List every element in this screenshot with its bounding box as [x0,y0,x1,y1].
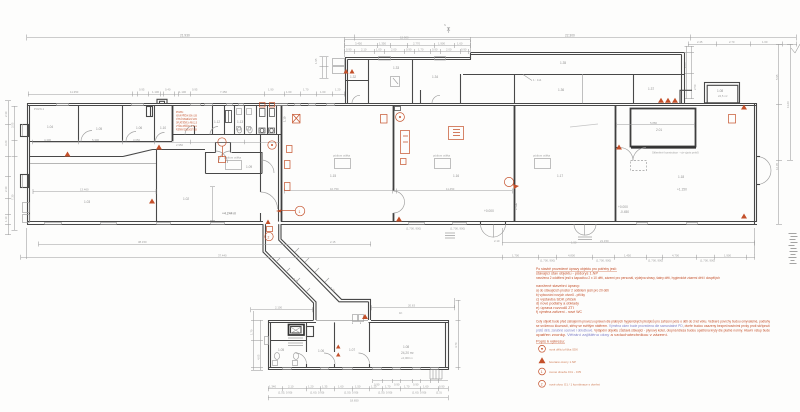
hall1 diagonal wall [123,150,153,157]
svg-text:1.70: 1.70 [385,385,391,389]
lower right vertical dim [458,300,460,370]
svg-text:1.60: 1.60 [762,40,768,44]
svg-text:38.150: 38.150 [138,240,147,244]
svg-text:2.45: 2.45 [697,40,703,44]
annex overall dim [345,39,470,41]
svg-text:+0.000: +0.000 [484,209,494,213]
partition WC right [276,106,278,135]
room 1.09 outline [206,153,263,174]
svg-text:(1.5): (1.5) [436,391,442,395]
door arcs lower building [296,353,370,364]
main building right wall [754,103,756,224]
svg-text:1.60: 1.60 [423,385,429,389]
svg-text:1.37: 1.37 [648,87,654,91]
wc fixtures [273,353,299,366]
entrance steps [445,233,455,238]
ANNEX [333,52,740,103]
hall2 left wall [281,106,283,222]
MARKERS [34,69,747,357]
annex top windows [379,57,391,61]
vestibule inner door [261,160,274,173]
orange triangle top right [741,105,747,110]
svg-text:1.06: 1.06 [318,349,324,353]
svg-text:2.70: 2.70 [729,40,735,44]
svg-text:5.300: 5.300 [92,138,99,142]
corridor right wall [279,224,369,302]
annex partition [368,59,370,103]
hall wall continuation into annex band [514,74,516,103]
bottom dim line L1 right [502,242,755,244]
long band partition [582,74,584,103]
hall1 floor step line [30,163,156,165]
svg-text:2.00: 2.00 [391,48,397,52]
svg-text:pódium výška: pódium výška [433,154,451,158]
annex block A top wall [345,57,471,59]
long band partition dark [633,74,635,103]
svg-text:0.90: 0.90 [461,48,467,52]
annex dim risers [344,40,346,58]
elevator shaft [289,325,305,336]
svg-text:1.70: 1.70 [303,88,309,92]
svg-text:Skleněné konstrukce - viz výpi: Skleněné konstrukce - viz výpis prvků [652,151,699,155]
CORRIDORLOWER [250,116,519,402]
svg-text:1.08: 1.08 [717,89,723,93]
small dark marks in rooms [147,107,153,117]
annex horizontal partition [345,80,368,82]
red circle below exit [265,232,273,240]
svg-text:+0.000: +0.000 [618,205,628,209]
red triangle [156,145,162,150]
corridor right wall vertical to lower building [368,302,370,320]
svg-text:f) výměna zařízení - nové WC: f) výměna zařízení - nové WC [536,310,583,314]
svg-text:2.770: 2.770 [413,42,420,46]
step between annex and long room [470,52,472,59]
long room right end wall [681,55,683,104]
long room top wall [471,52,684,54]
svg-text:POZN.1: POZN.1 [34,107,45,111]
svg-text:(1.700, 900): (1.700, 900) [406,227,421,231]
svg-text:3.55: 3.55 [11,122,15,128]
svg-text:18.650: 18.650 [350,399,359,403]
svg-text:0.90: 0.90 [432,48,438,52]
top right dimension chain [688,44,797,46]
svg-text:1.70: 1.70 [418,48,424,52]
hall1 vertical wall [156,150,158,222]
svg-text:-0.450: -0.450 [620,210,629,214]
svg-text:2.10: 2.10 [361,48,367,52]
svg-text:13.460: 13.460 [80,188,89,192]
annex partition [460,74,462,103]
svg-text:0.90: 0.90 [346,48,352,52]
doors below room 2.01 [620,148,646,161]
second entrance door [574,224,596,235]
svg-text:1.100: 1.100 [179,90,186,94]
main top wall dimension line [28,94,345,96]
svg-text:0.90: 0.90 [413,383,419,387]
svg-text:5.95: 5.95 [775,74,779,80]
svg-text:Celý objekt bude před zahájení: Celý objekt bude před zahájením provozu … [536,320,770,324]
risers to bottom dims [26,228,28,259]
windows in bottom wall [45,223,698,225]
small box left of 1.08 [680,90,692,103]
lower building top wall [268,320,314,322]
svg-text:10.750: 10.750 [330,187,339,191]
main building left wall [27,103,29,224]
hall2/2b double door arcs [394,191,405,213]
svg-text:1.36: 1.36 [558,88,564,92]
chimney fixture on wall [395,107,401,111]
svg-text:opatřen zvonky. Větrání zajišt: opatřen zvonky. Větrání zajištěno okny a… [536,333,668,337]
svg-text:+4.244 m: +4.244 m [222,212,236,216]
svg-text:se sníženou kluzností, stěny s: se sníženou kluzností, stěny se světlým … [536,324,770,328]
right edge rotated sheet text [789,234,798,264]
svg-text:1.60: 1.60 [320,90,326,94]
svg-text:0.40: 0.40 [165,88,171,92]
SIDEDIMS [4,44,800,264]
right vertical dim inner [790,44,792,160]
svg-text:1: 1 [541,370,543,374]
svg-text:0.90: 0.90 [394,383,400,387]
long room bottom wall [463,74,684,76]
bottom dim line L2 [21,257,755,259]
svg-text:1 : 114: 1 : 114 [533,78,542,82]
MAINWALLS [21,99,772,244]
red marks below exit [266,220,271,225]
svg-text:2: 2 [268,235,270,239]
svg-text:1.02: 1.02 [183,197,189,201]
bottom wall windows [283,368,439,370]
svg-text:1.13: 1.13 [237,120,243,124]
small partition marks [307,327,314,337]
svg-text:0.90: 0.90 [406,48,412,52]
hall wall x=514 [514,106,516,222]
small center box [391,77,400,87]
svg-text:1.90: 1.90 [268,88,274,92]
svg-text:24,20 m²: 24,20 m² [401,351,414,355]
svg-text:1.05: 1.05 [278,348,284,352]
bay door arcs [216,151,231,163]
svg-text:1.100: 1.100 [152,90,159,94]
partition thick [172,106,174,142]
annex left small vertical dims [322,57,324,78]
svg-text:3.050: 3.050 [133,138,140,142]
lower total dim [268,397,448,399]
diagonal slope note [523,75,532,81]
svg-text:(1.700, 900): (1.700, 900) [540,259,555,263]
fixtures small rooms [226,111,232,123]
elevator X [291,327,302,334]
red triangle hall1 right [149,199,155,204]
WC fixtures [259,109,275,134]
svg-text:21.930: 21.930 [180,33,190,37]
svg-text:(1.50, 0.90): (1.50, 0.90) [378,391,392,395]
svg-text:1.50: 1.50 [355,385,361,389]
right vertical dim outer [778,44,780,224]
lower bottom chain dim [268,388,448,390]
svg-text:1.900: 1.900 [438,42,445,46]
red circle marker WC [268,141,276,149]
svg-text:navržené stavební úpravy:: navržené stavební úpravy: [536,284,580,288]
dim line left of junction [251,309,313,311]
svg-text:2.30: 2.30 [4,186,8,192]
annex red triangles [344,69,355,74]
svg-text:4.400: 4.400 [44,138,51,142]
svg-text:1.95: 1.95 [314,58,318,64]
svg-text:1.34: 1.34 [432,75,438,79]
bay doorway [216,143,231,153]
windows in top wall [57,104,335,106]
svg-text:(1.700, 900): (1.700, 900) [648,259,663,263]
svg-text:1.35: 1.35 [560,61,566,65]
lower building red triangle [362,314,368,319]
room 2.01 [631,109,696,147]
overall top dimension line [27,37,796,39]
svg-text:(1.60, 0.90): (1.60, 0.90) [412,391,426,395]
svg-text:1: 1 [299,210,301,214]
svg-text:1.12: 1.12 [214,120,220,124]
svg-text:12.900: 12.900 [400,36,409,40]
svg-text:4.70: 4.70 [454,342,458,348]
svg-text:1.31: 1.31 [329,286,336,293]
red circle marker with stem (top row) [218,138,226,146]
svg-text:11.60: 11.60 [786,101,790,108]
svg-text:(1.55, 0.90): (1.55, 0.90) [278,391,292,395]
svg-text:37.440: 37.440 [218,253,227,257]
annex left attachment windows [333,59,345,66]
lower right small chain [373,380,448,382]
hall1 interior wall [30,156,123,158]
vestibule vertical dim [212,187,214,221]
svg-text:prstů dětí, zárubně ocelové i: prstů dětí, zárubně ocelové i obložkové.… [536,329,770,333]
svg-text:0.90: 0.90 [439,385,445,389]
lower building bottom wall [268,367,448,369]
svg-text:3.20: 3.20 [4,140,8,146]
orange triangle right section [616,145,622,150]
partition room 1.04/1.05 [78,106,80,142]
svg-text:0.95: 0.95 [192,88,198,92]
svg-text:Popis k výkresu:: Popis k výkresu: [536,340,565,344]
svg-text:2.00: 2.00 [446,48,452,52]
svg-text:navržena 2 oddělení jeslí s ka: navržena 2 oddělení jeslí s kapacitou 2 … [536,276,720,280]
svg-text:POŽÁRNÍ ODOLNOST EI30: POŽÁRNÍ ODOLNOST EI30 [176,129,197,132]
red circle marker left hall2 wall [396,113,405,122]
svg-text:Po stavbě provedené úpravy obj: Po stavbě provedené úpravy objektu pro p… [536,267,617,271]
svg-text:2.50: 2.50 [693,84,697,90]
main building outer bottom wall (with corridor opening) [27,221,263,223]
red circle marker at hall wall [504,177,513,186]
svg-text:1.17: 1.17 [557,174,563,178]
svg-text:2.100: 2.100 [275,306,282,310]
ORANGETEXT [536,267,770,387]
annex door arcs [352,95,440,103]
red triangle hall2 [396,217,402,222]
legend item 1 [539,345,546,352]
TOPDIMS [27,23,798,99]
svg-text:a) do stávajících prostor 2 o: a) do stávajících prostor 2 oddělení jes… [536,289,609,293]
partition [234,106,236,135]
svg-text:(1.60, 0.90): (1.60, 0.90) [310,391,324,395]
svg-text:1.04: 1.04 [47,125,53,129]
right wall double doors [757,157,771,185]
svg-text:2.01: 2.01 [656,128,662,132]
svg-text:1.16: 1.16 [453,174,459,178]
partition [154,106,156,142]
svg-text:(1.700, 900): (1.700, 900) [596,259,611,263]
svg-text:7.30: 7.30 [11,194,15,200]
wall segment [153,149,206,151]
svg-text:(1.700, 900): (1.700, 900) [450,227,465,231]
svg-text:1.900: 1.900 [724,253,731,257]
svg-text:1.350: 1.350 [379,42,386,46]
steps right of building [430,370,442,379]
svg-text:S: S [444,23,446,27]
svg-text:1.700: 1.700 [512,253,519,257]
horizontal partition [271,340,307,342]
hall2/hall2b dividing wall with central door [393,106,395,191]
svg-text:2.30: 2.30 [4,111,8,117]
partition [306,322,308,352]
legend item 3 [539,368,546,375]
svg-text:1.09: 1.09 [246,165,252,169]
vestibule door arc [261,192,278,209]
svg-text:pódium výška: pódium výška [333,154,351,158]
svg-text:2.10: 2.10 [494,239,500,243]
svg-text:1.60: 1.60 [338,385,344,389]
partition WC [267,106,269,135]
svg-text:1.10: 1.10 [283,116,287,122]
svg-text:1.05: 1.05 [96,127,102,131]
svg-text:(1.700, 900): (1.700, 900) [700,259,715,263]
svg-text:1.03: 1.03 [84,200,90,204]
detska herna labels + rects [333,154,551,169]
svg-text:20.63: 20.63 [408,304,415,308]
lower building door red marks [336,345,341,357]
left vertical dim line outer [8,101,10,235]
svg-text:nová dělicí příčka SDK: nová dělicí příčka SDK [549,347,578,351]
svg-text:7.450: 7.450 [220,90,227,94]
svg-text:2: 2 [541,382,543,386]
svg-text:4.800: 4.800 [568,253,575,257]
top row rooms bottom wall right part [172,134,281,136]
red circle with leader (vestibule) [295,206,305,216]
svg-text:nové dveře D1 - D5: nové dveře D1 - D5 [549,370,581,374]
svg-text:(1.50, 0.90): (1.50, 0.90) [344,391,358,395]
svg-text:1.20: 1.20 [335,88,341,92]
svg-text:1.10: 1.10 [160,126,166,130]
svg-text:0.95: 0.95 [139,88,145,92]
svg-text:1.32: 1.32 [350,75,356,79]
svg-text:+1.150: +1.150 [677,188,687,192]
svg-text:pódium výška: pódium výška [224,156,242,160]
svg-text:1.06: 1.06 [136,126,142,130]
svg-text:1.15: 1.15 [330,174,336,178]
svg-text:1.18: 1.18 [678,175,684,179]
svg-text:2.10: 2.10 [288,385,294,389]
dashed cabinet [631,161,647,171]
annex chain dim tier2 [345,51,470,53]
right section left wall [615,106,617,222]
top row internal dim line [32,142,280,144]
hall1 internal dim [33,191,156,193]
orange room door arc [185,126,194,135]
svg-text:1.60: 1.60 [286,90,292,94]
svg-text:4.700: 4.700 [672,253,679,257]
svg-text:1.340: 1.340 [269,385,276,389]
lower left vertical dims [253,311,255,370]
svg-text:1.20: 1.20 [308,385,314,389]
svg-text:3.450: 3.450 [355,42,362,46]
svg-text:bourané otvory 1.NP: bourané otvory 1.NP [549,360,576,364]
svg-text:1.450: 1.450 [624,253,631,257]
orange triangles trio [658,98,678,103]
svg-text:5.880: 5.880 [650,121,657,125]
left wall window bays [21,125,29,137]
svg-text:pódium výška: pódium výška [533,154,551,158]
entry fixtures at corridor mouth [353,315,364,325]
svg-text:21.150: 21.150 [600,239,609,243]
hall3 faint mark [570,124,598,127]
annex partition [412,59,414,103]
bottom dim line L1 left [39,244,372,246]
partition orange room right [212,106,214,135]
svg-text:2.950: 2.950 [176,143,183,147]
legend item 4 [539,380,546,387]
small top right box 1.08 [705,83,740,103]
svg-text:1.70: 1.70 [250,329,254,335]
svg-text:1K: 1K [399,311,403,315]
svg-text:1.70: 1.70 [404,385,410,389]
partition [122,106,124,142]
ticks on corridor walls [276,248,329,292]
orange WC window frames [260,103,266,108]
top row rooms bottom wall left part [30,141,172,143]
svg-text:1.08: 1.08 [403,345,409,349]
dim line right of junction [372,307,456,309]
orange triangle bottom right [741,214,747,219]
svg-text:24,5 m²: 24,5 m² [718,94,728,98]
left wall window [265,337,269,345]
svg-text:1.60: 1.60 [457,42,463,46]
svg-text:12.05: 12.05 [775,163,779,170]
annex block A left wall [345,57,347,103]
annex partition [420,90,422,103]
legend item 2 [539,357,546,363]
south entrance double door [481,224,506,237]
svg-text:4.05: 4.05 [257,354,261,360]
partition [256,106,258,135]
svg-text:2.15: 2.15 [330,240,336,244]
svg-text:11.350: 11.350 [70,90,79,94]
room 2.01 internal dim [617,124,695,126]
main building outer top wall [27,103,757,105]
vestibule right wall [278,135,280,222]
stairs below elevator [288,338,303,346]
svg-text:1.07: 1.07 [349,348,355,352]
lower building left wall [268,320,270,370]
svg-text:1.00: 1.00 [376,48,382,52]
partition [369,322,371,352]
vestibule left wall [260,135,262,192]
svg-text:1.10: 1.10 [4,216,8,222]
svg-text:0.90: 0.90 [374,383,380,387]
svg-text:+0,000 m: +0,000 m [401,356,413,360]
halls internal dim line [284,190,512,192]
svg-text:nové okno O1 / 1 kombinace s d: nové okno O1 / 1 kombinace s dveřmi [549,382,600,386]
svg-text:22.300: 22.300 [565,33,575,37]
svg-text:1.500: 1.500 [514,203,518,210]
svg-text:11.450: 11.450 [446,187,455,191]
red triangle hall1 [65,152,71,157]
